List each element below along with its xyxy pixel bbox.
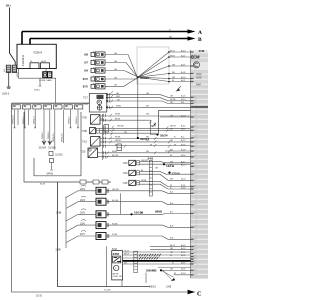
svg-text:56: 56 [194,166,196,168]
sensor 7/20 [123,170,140,175]
node 31/317 [137,77,139,138]
svg-text:7/16: 7/16 [83,103,88,106]
svg-text:17: 17 [194,263,196,265]
fan diverge inside box [138,52,191,82]
ECM wires upper middle [160,117,191,151]
svg-text:TB/81-3: TB/81-3 [33,116,35,124]
svg-text:31/33: 31/33 [17,71,19,77]
shield hatch 2 [139,257,158,260]
ECM unit 4/46 connector column [191,50,209,279]
svg-text:TB/81-6: TB/81-6 [76,116,78,124]
svg-text:C: C [197,291,201,298]
svg-text:87/2: 87/2 [83,77,89,81]
ECM pin numbers [194,97,196,277]
sensor unit box 7/16 7/17 [83,94,107,113]
svg-text:19: 19 [194,180,196,182]
svg-text:SPLY: SPLY [124,253,130,255]
injector 20/7 [66,231,191,243]
svg-text:GR-SB: GR-SB [112,189,119,191]
wire B to right with arrow [30,38,191,40]
frame main left [12,103,188,292]
sensor 7/88 [82,128,100,134]
connector block 23/5 [104,125,109,133]
svg-text:7/26: 7/26 [123,162,128,165]
svg-text:A: A [198,30,202,36]
svg-text:GR-W: GR-W [170,125,176,127]
svg-text:GR: GR [114,69,118,71]
svg-text:SB/GR: SB/GR [141,160,148,162]
wire fuse to terminal [8,72,10,86]
svg-text:15: 15 [194,193,196,195]
svg-text:26/51: 26/51 [150,286,157,289]
connector 4/3 dark pair below relay [39,72,53,82]
ETM box 6/32 [112,248,124,280]
wire relay to connector [45,69,47,72]
svg-text:41: 41 [194,156,196,158]
svg-text:2/83-2: 2/83-2 [34,90,41,92]
svg-text:38: 38 [194,246,196,248]
node 24/1-B [168,172,170,174]
svg-text:GR: GR [170,96,174,98]
svg-text:11/132-9: 11/132-9 [21,55,25,66]
sensor column 3 wires [140,162,191,189]
svg-text:BL-R: BL-R [170,50,175,52]
svg-text:7/20: 7/20 [123,172,128,175]
shield hatch 1 [139,254,161,257]
svg-text:OO2: OO2 [196,72,202,76]
svg-text:SB-R: SB-R [170,55,175,57]
svg-text:GR: GR [155,167,159,169]
svg-text:BL/GR: BL/GR [112,155,119,157]
shield junction 31/316 [49,152,53,156]
wire stub sensor 7/55 mid pin [100,118,104,120]
svg-text:24/1: 24/1 [148,157,154,161]
svg-text:7/15: 7/15 [82,141,87,144]
connector pin ticks middle band [104,93,110,158]
svg-text:GR: GR [114,53,118,55]
svg-text:6/R41: 6/R41 [47,173,54,176]
ECM logo circle [193,62,199,68]
sensor 7/15 [82,137,100,147]
injector wire labels [112,189,174,240]
svg-text:4/46: 4/46 [199,49,205,53]
ECM pin ticks [191,51,194,275]
wire relay drop to terminal [39,78,42,86]
node 5/90MB splice [158,267,191,279]
svg-text:W: W [170,255,172,257]
wire relay left drop [19,69,56,104]
relay box 11/132-9 [17,44,56,68]
svg-text:W: W [172,80,174,82]
svg-text:GR: GR [172,64,176,66]
fuse row 87/2 [83,76,105,82]
fuse row 8/9 [84,68,105,74]
injector 20/4 [66,196,191,208]
svg-text:GR: GR [170,162,174,164]
svg-text:8/7: 8/7 [84,61,88,65]
wire A vertical into relay [21,32,23,45]
svg-text:53/34: 53/34 [160,134,168,138]
svg-text:W: W [170,165,172,167]
fan box [137,47,169,84]
svg-text:133-B: 133-B [172,172,181,176]
svg-text:GR: GR [114,77,118,79]
pin labels left of ECM [170,49,186,275]
injector common wire [65,197,67,249]
ETM pin strip [134,251,138,273]
svg-text:37: 37 [194,103,196,105]
svg-text:GR: GR [146,93,150,95]
svg-text:R/GR: R/GR [115,136,121,138]
injector connector row [80,180,108,184]
ETM wire labels [124,250,130,264]
svg-text:TB/81-10: TB/81-10 [13,115,15,124]
svg-text:W: W [174,273,176,275]
svg-text:2/4B: 2/4B [56,212,61,215]
svg-text:W-SB: W-SB [170,99,176,101]
svg-text:GR: GR [170,115,174,117]
svg-text:41: 41 [194,130,196,132]
svg-text:7/17: 7/17 [83,97,88,100]
node 53/34 [156,133,158,135]
svg-text:BL-SB: BL-SB [112,200,119,202]
ETM box bottom drop [121,280,123,287]
svg-text:B: B [198,37,202,43]
fuse row 87/5 [83,83,105,89]
ground cluster inner box [34,112,81,176]
svg-text:7/45: 7/45 [123,182,128,185]
inner frame bottom left [58,182,151,287]
svg-text:R-SB: R-SB [112,234,118,236]
wire labels middle band [112,93,156,157]
svg-text:GR: GR [116,93,120,95]
svg-text:GR: GR [170,140,174,142]
svg-text:43: 43 [194,270,196,272]
svg-text:31/304: 31/304 [39,146,47,149]
svg-text:GR: GR [146,114,150,116]
svg-text:2/83-3: 2/83-3 [2,93,10,96]
pin nubs on sensor unit box 7/16-7/17 [106,94,108,108]
svg-text:11: 11 [194,116,196,118]
svg-text:GR: GR [114,61,118,63]
svg-text:17: 17 [194,188,196,190]
node 31/318 [137,76,139,78]
ground cluster outer box [24,112,111,182]
svg-text:7/55: 7/55 [82,117,87,120]
wire 30+ feed [10,8,16,66]
svg-text:56: 56 [194,239,196,241]
sensor 7/45 [123,180,140,185]
svg-text:A/M: A/M [196,83,201,87]
svg-text:40: 40 [194,145,196,147]
svg-text:36-W: 36-W [40,184,45,186]
svg-text:TB/81-18: TB/81-18 [62,133,64,142]
sensor wires to ECM (middle band) [98,95,191,157]
svg-text:ETM: ETM [113,252,120,256]
svg-text:31/306: 31/306 [48,146,56,149]
svg-text:8/8: 8/8 [84,53,88,57]
injector 20/6 [66,220,191,232]
svg-text:GR/W: GR/W [115,140,121,142]
wire slashes middle band [107,91,171,158]
svg-text:W: W [150,145,152,147]
svg-text:3: 3 [194,163,195,165]
svg-text:33: 33 [194,173,196,175]
svg-text:SAFE: SAFE [47,79,53,82]
box right middle [159,111,191,134]
svg-text:90M): 90M) [155,210,162,214]
svg-text:31/316: 31/316 [55,154,63,157]
svg-text:31/317: 31/317 [140,137,150,141]
svg-text:32-20: 32-20 [36,295,43,297]
arrow C [188,290,196,295]
node 10/100 [130,213,132,215]
stub wire drop to node 53/34 [151,120,157,134]
svg-text:10-OM: 10-OM [104,290,111,292]
injector 20/5 [66,209,191,221]
ground 31/304 [42,141,46,146]
svg-text:GR/SB: GR/SB [117,125,124,127]
fuse fan-out wires to node [105,55,137,87]
svg-text:28: 28 [194,253,196,255]
fuse 1/1 [4,65,17,72]
svg-text:33: 33 [194,137,196,139]
connector strip vertical [102,114,104,160]
svg-text:OVAL TRL: OVAL TRL [113,275,124,278]
svg-text:33: 33 [194,249,196,251]
svg-text:48: 48 [194,204,196,206]
svg-text:7/88: 7/88 [82,130,87,133]
wire A to right with arrow [22,31,191,33]
fuse row 8/8 [84,52,105,58]
svg-text:TB/81-9: TB/81-9 [69,116,71,124]
svg-text:37: 37 [194,227,196,229]
bus drops [15,110,79,150]
svg-text:-2/96: -2/96 [166,286,172,289]
sensor 7/55 [82,115,100,125]
ETM left frame line [106,246,108,286]
svg-text:18: 18 [194,97,196,99]
pin nubs on fan-out box right edge [168,51,170,82]
svg-text:33: 33 [194,213,196,215]
svg-text:GR: GR [172,77,176,79]
ETM thick wire [123,260,191,262]
svg-text:43: 43 [194,141,196,143]
svg-text:GR: GR [114,85,118,87]
svg-text:7/25: 7/25 [81,151,86,154]
svg-text:7: 7 [194,150,195,152]
svg-text:R/SB: R/SB [115,114,120,116]
svg-text:GL-R: GL-R [124,250,129,252]
arrow stub up-right [152,124,156,128]
svg-text:40: 40 [194,100,196,102]
ECM section divider bar [191,106,209,108]
svg-text:B/SB: B/SB [116,106,121,108]
terminal 2/83-3 [7,87,11,88]
component 31/355 [50,159,54,163]
svg-text:TB/81-5: TB/81-5 [48,131,50,139]
wire splice vertical injector rows [120,193,122,214]
svg-text:W/SB: W/SB [141,180,147,182]
svg-text:W-SB: W-SB [112,223,118,225]
svg-text:30+: 30+ [6,4,11,8]
svg-text:BL/W: BL/W [115,119,120,121]
svg-text:26: 26 [194,126,196,128]
svg-text:W-R: W-R [116,96,121,98]
svg-text:W: W [115,145,117,147]
svg-text:2/4B: 2/4B [56,249,61,252]
wire B vertical into relay [29,39,31,45]
svg-text:TB/81-15: TB/81-15 [53,133,55,142]
fuse row 8/7 [84,60,105,66]
svg-text:OO5: OO5 [196,76,202,80]
svg-text:8/9: 8/9 [84,69,88,73]
svg-text:B/SB: B/SB [112,151,117,153]
ETM wires to ECM [123,246,191,264]
arrow stub off-page right [178,86,182,90]
svg-text:F230-9: F230-9 [34,51,43,55]
svg-text:GR: GR [170,252,174,254]
inline connector strip 24/1 [148,157,154,196]
svg-text:5/90MB: 5/90MB [146,269,157,273]
ground 31/306 [48,141,52,146]
svg-text:87/5: 87/5 [83,84,89,88]
sensor 7/25 [81,148,98,158]
bus bar connector row [12,102,90,104]
svg-text:TB/81-7: TB/81-7 [42,131,44,139]
svg-text:GR: GR [170,269,174,271]
injector 20/3 [66,185,191,197]
svg-text:12: 12 [194,274,196,276]
connector block 23/6 [117,144,122,151]
sensor 7/26 [123,160,140,165]
node 132-B [163,163,165,165]
svg-text:W: W [174,145,176,147]
svg-text:BL-R: BL-R [170,245,175,247]
